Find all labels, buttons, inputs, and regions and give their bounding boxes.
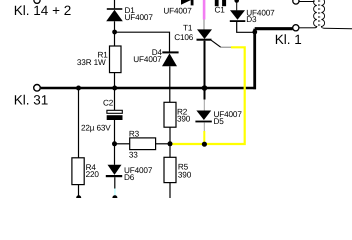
node D6 bottom edge xyxy=(112,195,117,200)
svg-text:220: 220 xyxy=(86,170,100,179)
thyristor T1 xyxy=(197,29,213,40)
wire D3 to node xyxy=(237,22,254,32)
svg-text:UF4007: UF4007 xyxy=(125,13,154,22)
node C2/R3 xyxy=(112,141,117,146)
node D3 top (cut at edge) xyxy=(234,0,239,3)
wire node to R1 xyxy=(114,32,116,46)
terminal Kl. 14 + 2 xyxy=(34,0,40,3)
svg-text:T1: T1 xyxy=(183,24,193,33)
svg-text:D3: D3 xyxy=(246,15,257,24)
wire D6 top xyxy=(114,144,116,165)
resistor R2 xyxy=(164,102,176,127)
wire D3 top xyxy=(236,0,238,10)
wire to transformer top xyxy=(299,1,315,3)
capacitor C1 xyxy=(215,0,226,6)
diode D6 xyxy=(106,165,122,177)
svg-text:Kl. 1: Kl. 1 xyxy=(275,32,302,47)
wire node to R3 xyxy=(115,143,130,145)
diode D3 xyxy=(230,10,246,22)
svg-text:Kl. 31: Kl. 31 xyxy=(14,92,49,107)
node rail R1/C2 xyxy=(112,86,117,91)
diode D2 (top edge, points right) xyxy=(181,0,194,5)
wire R5 to bottom edge xyxy=(169,183,171,198)
wire R1 to rail xyxy=(114,73,116,88)
wire R2 to node xyxy=(169,127,171,144)
node rail R4 xyxy=(76,86,81,91)
svg-text:C1: C1 xyxy=(215,5,226,14)
wire C2 top xyxy=(114,89,116,110)
wire T1 gate xyxy=(211,40,220,47)
wire D6 bottom xyxy=(114,177,116,189)
wire gate grey segment xyxy=(221,46,231,48)
wire D1 to node xyxy=(114,21,116,32)
resistor R1 xyxy=(110,46,122,73)
node D3/Kl.1 xyxy=(252,30,257,35)
svg-text:C106: C106 xyxy=(174,33,194,42)
node R4 bottom edge xyxy=(76,195,81,200)
svg-text:390: 390 xyxy=(178,170,192,179)
wire ground rail (bold) xyxy=(41,87,256,89)
wire yellow D5 stub xyxy=(203,131,205,144)
node R2/R3/R5 xyxy=(168,141,173,146)
svg-text:D5: D5 xyxy=(214,117,225,126)
wire winding to Kl.1 xyxy=(299,27,314,29)
diode D5 xyxy=(195,111,211,123)
svg-text:UF4007: UF4007 xyxy=(133,55,162,64)
svg-text:R3: R3 xyxy=(129,129,140,138)
diode D1 xyxy=(106,8,123,21)
wire yellow net gate to R3/D5 xyxy=(172,47,245,144)
svg-text:D6: D6 xyxy=(124,173,135,182)
wire bold vertical to Kl.1 xyxy=(253,29,256,89)
svg-text:C2: C2 xyxy=(103,99,114,108)
node rail T1 xyxy=(202,85,208,91)
svg-text:22µ 63V: 22µ 63V xyxy=(81,123,111,132)
wire winding to right edge xyxy=(324,27,352,30)
svg-text:33: 33 xyxy=(129,151,138,160)
svg-text:390: 390 xyxy=(177,114,191,123)
wire magenta net (T1 anode) xyxy=(203,0,206,20)
wire R4 top xyxy=(78,88,80,158)
wire grey anode segment xyxy=(203,20,205,30)
wire D5 top (grey) xyxy=(203,100,205,111)
wire node to R5 xyxy=(169,144,171,158)
transformer primary winding xyxy=(314,0,317,28)
transformer secondary winding xyxy=(321,0,324,28)
wire bold Kl.1 horizontal xyxy=(255,27,293,30)
wire D4 to R2 (crosses rail) xyxy=(169,66,171,102)
node D5/yellow xyxy=(202,142,207,147)
diode D4 xyxy=(162,51,179,66)
node D1/D4 junction xyxy=(112,30,117,35)
resistor R3 xyxy=(130,138,156,150)
wire cyan net bottom xyxy=(114,189,116,198)
terminal transformer top xyxy=(293,0,299,4)
wire node to D4 column xyxy=(115,32,170,51)
wire D5 to yellow node (grey) xyxy=(203,122,205,131)
resistor R4 xyxy=(72,158,84,185)
svg-text:Kl. 14 + 2: Kl. 14 + 2 xyxy=(14,3,71,18)
terminal Kl. 1 xyxy=(293,25,299,31)
wire T1 cathode to rail (bold) xyxy=(204,41,206,100)
transformer core xyxy=(317,0,319,27)
wire C2 to node xyxy=(114,120,116,144)
svg-text:UF4007: UF4007 xyxy=(163,7,192,16)
wire D1 top xyxy=(114,0,116,8)
capacitor C2 xyxy=(107,110,123,120)
terminal Kl. 31 xyxy=(34,85,41,92)
wire R4 bottom xyxy=(78,185,80,198)
wire R3 to node xyxy=(156,143,168,145)
resistor R5 xyxy=(164,157,176,182)
svg-text:33R 1W: 33R 1W xyxy=(77,58,106,67)
